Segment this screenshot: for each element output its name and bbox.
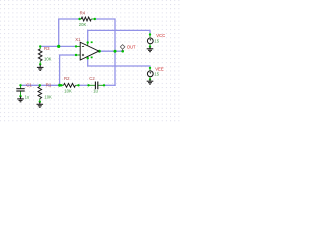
svg-text:R1: R1	[46, 83, 52, 88]
svg-text:20K: 20K	[79, 22, 87, 27]
svg-text:R2: R2	[64, 76, 70, 81]
svg-text:1u: 1u	[93, 89, 98, 94]
svg-text:X1: X1	[75, 37, 81, 42]
svg-text:10K: 10K	[44, 94, 52, 99]
svg-text:10K: 10K	[64, 89, 72, 94]
svg-text:C1: C1	[26, 83, 32, 88]
svg-text:15: 15	[154, 72, 159, 77]
svg-text:15: 15	[154, 38, 159, 43]
svg-text:10K: 10K	[44, 57, 52, 62]
svg-text:OUT: OUT	[127, 44, 136, 49]
svg-text:1u: 1u	[25, 94, 30, 99]
svg-text:C2: C2	[89, 76, 95, 81]
svg-text:R4: R4	[80, 10, 86, 15]
svg-text:R3: R3	[44, 46, 50, 51]
